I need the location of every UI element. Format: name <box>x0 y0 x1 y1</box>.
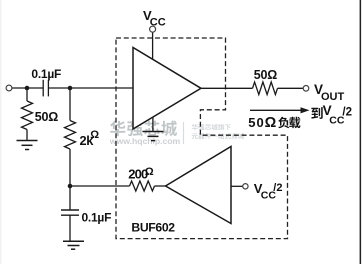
svg-text:Ω: Ω <box>90 129 99 141</box>
svg-text:50: 50 <box>248 115 265 130</box>
svg-text:0.1µF: 0.1µF <box>31 67 61 81</box>
svg-text:OUT: OUT <box>321 91 345 103</box>
svg-text:50Ω: 50Ω <box>35 110 59 124</box>
svg-text:0.1µF: 0.1µF <box>82 211 112 225</box>
svg-text:BUF602: BUF602 <box>131 221 175 235</box>
svg-text:/2: /2 <box>273 182 282 194</box>
svg-text:Ω: Ω <box>145 166 154 178</box>
svg-text:CC: CC <box>150 16 166 28</box>
svg-text:/2: /2 <box>342 107 352 119</box>
svg-text:50Ω: 50Ω <box>254 68 278 82</box>
svg-text:Ω: Ω <box>265 115 277 131</box>
svg-text:www.hqchip.com: www.hqchip.com <box>109 136 181 146</box>
